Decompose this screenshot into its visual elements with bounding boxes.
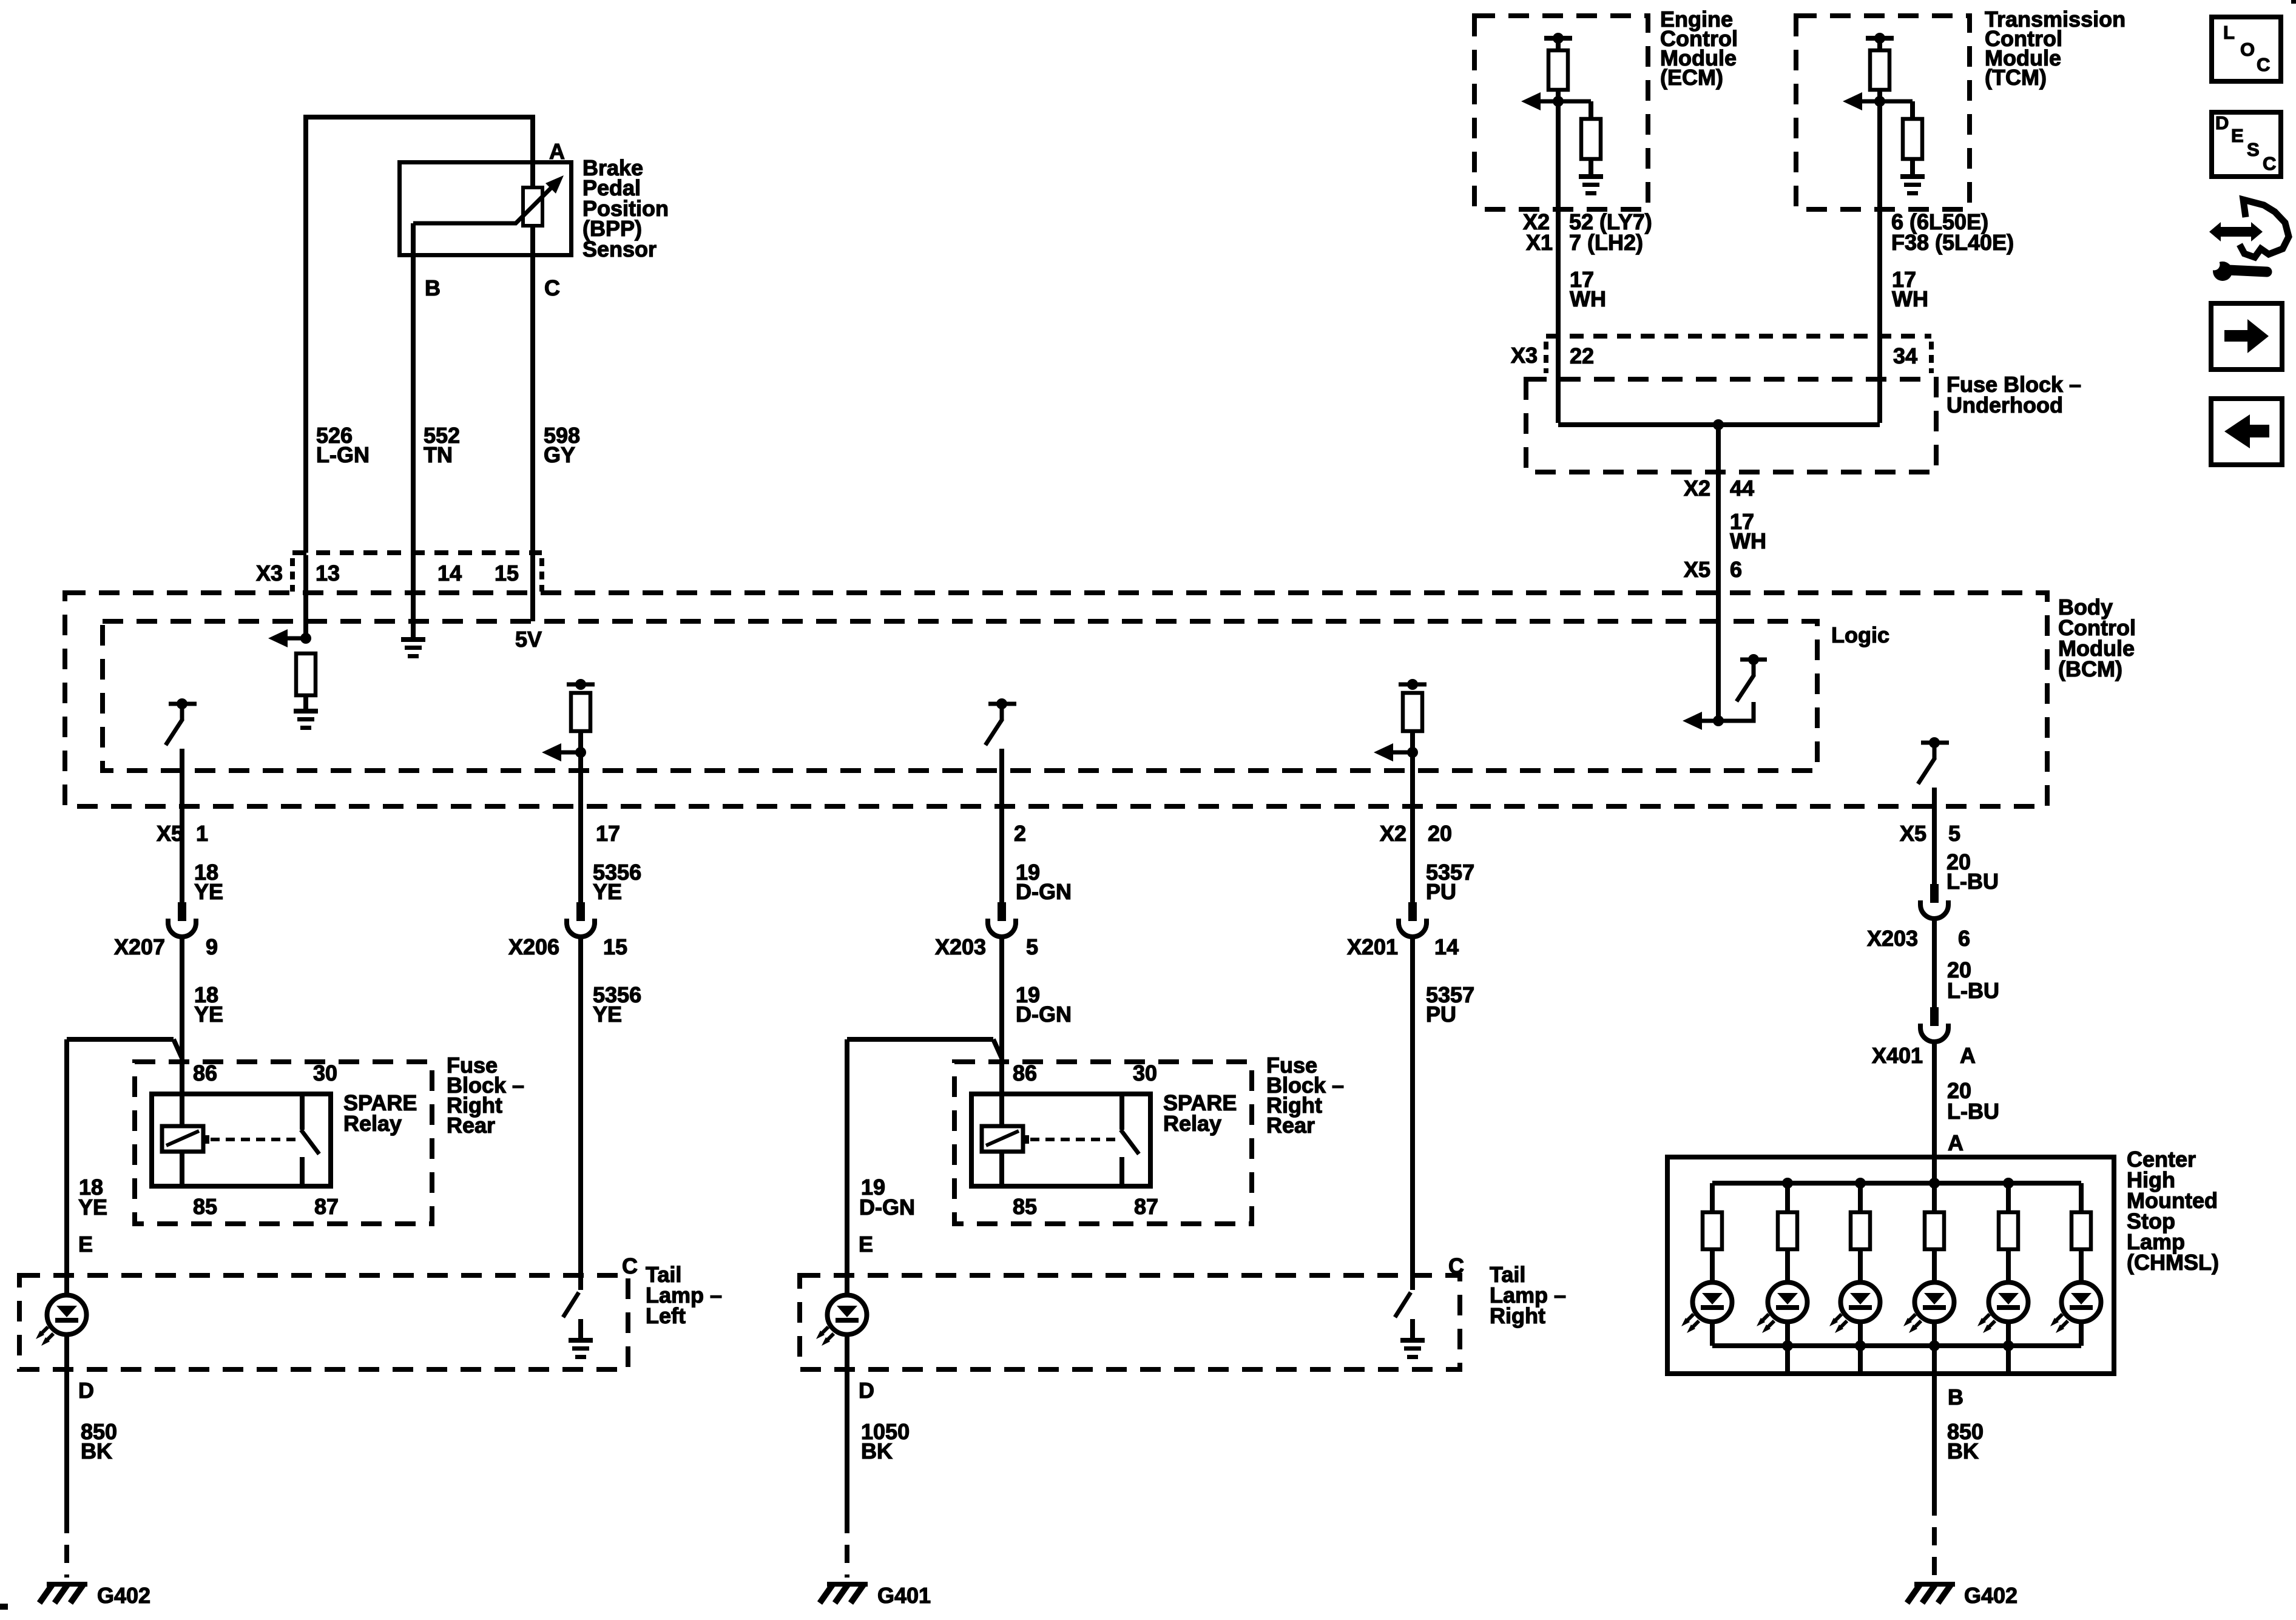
svg-text:F38 (5L40E): F38 (5L40E) [1891,230,2014,255]
svg-text:WH: WH [1570,286,1606,311]
svg-text:O: O [2240,39,2255,60]
svg-text:D-GN: D-GN [859,1195,915,1220]
svg-text:6: 6 [1730,557,1742,582]
svg-text:86: 86 [193,1061,217,1085]
svg-text:B: B [425,275,441,300]
svg-text:5V: 5V [515,627,542,652]
svg-text:9: 9 [206,934,218,959]
svg-text:S: S [2247,139,2260,160]
svg-text:C: C [622,1254,638,1278]
svg-text:X5: X5 [157,821,183,846]
svg-text:Sensor: Sensor [582,237,657,262]
svg-text:X3: X3 [1511,343,1538,368]
svg-text:D-GN: D-GN [1016,1002,1072,1027]
svg-text:X1: X1 [1526,230,1553,255]
svg-text:86: 86 [1013,1061,1037,1085]
svg-text:C: C [2257,54,2270,75]
svg-text:X3: X3 [256,561,283,586]
svg-text:YE: YE [194,1002,223,1027]
svg-text:BK: BK [81,1439,112,1463]
svg-text:X401: X401 [1872,1043,1923,1068]
svg-text:5: 5 [1026,934,1038,959]
svg-text:Right: Right [1490,1303,1545,1328]
svg-text:PU: PU [1426,879,1456,904]
svg-text:X207: X207 [114,934,165,959]
svg-text:2: 2 [1014,821,1026,846]
svg-text:YE: YE [593,1002,622,1027]
svg-text:15: 15 [603,934,627,959]
svg-text:GY: GY [544,442,575,467]
svg-text:D: D [78,1378,94,1403]
svg-text:44: 44 [1730,476,1754,501]
svg-text:D: D [859,1378,874,1403]
svg-text:A: A [549,139,565,164]
svg-text:(TCM): (TCM) [1985,65,2047,90]
svg-text:85: 85 [193,1194,217,1219]
svg-text:6: 6 [1958,926,1970,951]
svg-text:Relay: Relay [343,1111,402,1136]
svg-text:L: L [2223,22,2235,43]
svg-text:X203: X203 [935,934,986,959]
svg-text:L-BU: L-BU [1947,869,1999,894]
svg-text:D: D [2215,112,2229,133]
svg-text:(ECM): (ECM) [1660,65,1723,90]
svg-text:87: 87 [1134,1194,1158,1219]
svg-text:1: 1 [196,821,208,846]
svg-text:X206: X206 [508,934,559,959]
svg-text:A: A [1948,1130,1963,1155]
svg-text:L-BU: L-BU [1947,1099,1999,1124]
svg-text:G401: G401 [877,1583,931,1608]
svg-text:X203: X203 [1867,926,1918,951]
svg-text:85: 85 [1013,1194,1037,1219]
svg-text:5: 5 [1948,821,1960,846]
svg-text:B: B [1948,1385,1963,1409]
svg-text:Rear: Rear [447,1113,495,1138]
svg-text:17: 17 [596,821,620,846]
svg-text:X2: X2 [1380,821,1406,846]
svg-text:G402: G402 [1964,1583,2017,1608]
svg-text:C: C [544,275,560,300]
svg-text:BK: BK [861,1439,893,1463]
svg-text:X5: X5 [1684,557,1710,582]
svg-text:20: 20 [1428,821,1452,846]
svg-text:YE: YE [593,879,622,904]
svg-text:Underhood: Underhood [1947,393,2063,417]
svg-text:30: 30 [313,1061,337,1085]
svg-text:WH: WH [1730,528,1766,553]
svg-text:BK: BK [1947,1439,1979,1463]
svg-text:14: 14 [437,561,462,586]
svg-text:14: 14 [1434,934,1459,959]
svg-text:Relay: Relay [1163,1111,1221,1136]
svg-text:7 (LH2): 7 (LH2) [1569,230,1643,255]
svg-text:G402: G402 [97,1583,150,1608]
svg-text:E: E [78,1232,93,1257]
svg-text:E: E [2231,125,2244,146]
svg-text:Logic: Logic [1831,623,1889,647]
svg-text:L-GN: L-GN [316,442,370,467]
svg-text:22: 22 [1570,343,1594,368]
svg-text:(CHMSL): (CHMSL) [2127,1250,2219,1275]
svg-text:13: 13 [316,561,340,586]
svg-text:YE: YE [194,879,223,904]
svg-text:C: C [1448,1254,1464,1278]
svg-text:15: 15 [495,561,519,586]
svg-text:PU: PU [1426,1002,1456,1027]
svg-text:TN: TN [424,442,453,467]
svg-text:WH: WH [1892,286,1928,311]
svg-text:A: A [1960,1043,1976,1068]
svg-text:X2: X2 [1684,476,1710,501]
svg-text:Rear: Rear [1266,1113,1315,1138]
svg-text:D-GN: D-GN [1016,879,1072,904]
svg-text:34: 34 [1893,343,1917,368]
svg-text:X201: X201 [1347,934,1398,959]
svg-text:L-BU: L-BU [1947,978,1999,1003]
svg-text:(BCM): (BCM) [2058,656,2122,681]
svg-text:30: 30 [1133,1061,1157,1085]
svg-text:87: 87 [314,1194,339,1219]
svg-text:E: E [859,1232,873,1257]
svg-text:C: C [2263,153,2276,174]
svg-text:YE: YE [78,1195,107,1220]
svg-text:Left: Left [646,1303,686,1328]
svg-text:X5: X5 [1900,821,1926,846]
